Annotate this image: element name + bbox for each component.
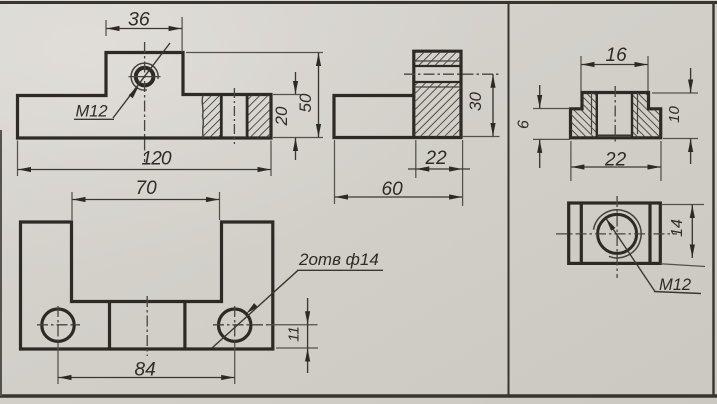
M12 thread arc (top view) [594,210,642,258]
svg-text:120: 120 [142,149,173,170]
side view hatch lower band [414,82,461,138]
svg-text:16: 16 [606,45,628,66]
hole circle left (plan) [42,309,74,341]
svg-text:50: 50 [296,93,315,112]
M12 hole circle (front view) [136,68,154,86]
T-nut section centerline [614,86,616,144]
svg-text:30: 30 [466,92,485,111]
dimension 10 [652,68,698,164]
T-nut hole left wall [596,93,598,138]
leader 2 holes dia 14 [212,270,383,348]
front view hole left wall [220,95,223,138]
M12 leader (front view) [74,43,170,119]
T-nut thread thin lines [591,93,593,135]
svg-text:60: 60 [382,179,404,200]
dimension 11 [276,298,318,373]
M12 hole circle (top view) [598,214,637,253]
svg-text:2отв ф14: 2отв ф14 [298,250,379,269]
side view outline (part 1) [334,51,461,137]
svg-text:70: 70 [136,178,158,199]
front view local section hatch left band [202,96,221,139]
svg-text:М12: М12 [76,103,108,121]
svg-text:36: 36 [128,9,150,31]
M12 thread arc (front view) [131,63,158,90]
dimension 22 (T-nut) [571,141,661,181]
hole circle right (plan) [219,309,251,341]
T-nut slot bottom line [597,134,632,136]
svg-text:М12: М12 [659,276,691,294]
left hole vertical centerline / 84 extension [57,306,59,343]
svg-text:22: 22 [425,148,448,169]
T-nut section hatch right [632,93,661,138]
front view local section hatch right band [247,95,271,139]
plan view outline (part 1) [21,222,273,349]
dimension 20 [272,72,302,160]
frame left border [0,130,2,396]
dimension 120 [18,141,272,177]
side view thread thin lines [414,60,461,62]
dimension 84 [58,360,235,381]
M12 leader (top view) [606,219,701,294]
front view hole centerline [233,88,235,144]
right hole vertical centerline / 84 extension [234,306,236,343]
top view horizontal centerline [556,233,677,235]
svg-text:22: 22 [604,150,627,171]
frame right border [712,2,714,396]
front view hole right wall [246,95,249,139]
dimension 30 [462,74,500,136]
right hole horizontal centerline / 11 extension [213,324,268,326]
T-nut top view outline (part 2) [569,203,661,263]
dimension 60 [335,140,463,204]
dimension 22 (side view) [408,140,470,206]
panel divider [508,4,510,395]
frame top border [0,1,717,4]
dimension 36 [106,9,182,53]
top view vertical centerline [616,196,618,278]
side view hole centerline [404,73,500,75]
plan middle centerline [146,296,148,356]
T-nut hole right wall [631,93,633,138]
svg-text:6: 6 [516,120,533,129]
dimension 70 [72,178,220,220]
dimension 14 [661,205,706,267]
svg-text:10: 10 [666,106,683,123]
svg-text:11: 11 [286,326,303,342]
svg-text:14: 14 [669,219,686,237]
dimension 50 [186,53,323,138]
frame bottom border [0,394,717,397]
side view hatch upper band [414,51,461,66]
front circle horizontal centerline [129,76,161,78]
dimension 16 [581,45,648,91]
svg-text:84: 84 [135,360,156,381]
svg-text:20: 20 [272,106,291,126]
front circle vertical centerline [144,42,146,162]
T-nut section hatch left [571,93,597,138]
front view outline (part 1) [18,53,272,139]
side view hole thick lines [414,65,461,67]
T-nut section view outline (part 2) [571,93,661,138]
front view break (wavy) line [202,96,203,139]
left hole horizontal centerline [37,324,80,326]
dimension 6 [516,85,571,168]
